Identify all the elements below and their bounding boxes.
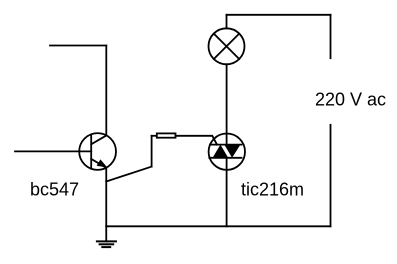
wire: emitter down to ground rail	[105, 168, 107, 227]
transistor Q1 bc547 (NPN)	[79, 133, 116, 170]
wire: resistor left lead	[152, 135, 157, 137]
wire: base lead	[15, 150, 91, 152]
wire: right side upper segment	[330, 15, 332, 58]
wire: lamp top riser	[226, 15, 228, 28]
wire: right side lower segment	[330, 125, 332, 227]
wire: bottom ground rail	[106, 225, 330, 227]
label 220 V ac	[315, 90, 386, 110]
lamp L1	[209, 28, 245, 64]
svg-text:220 V ac: 220 V ac	[315, 90, 386, 110]
wire: collector riser	[105, 46, 107, 136]
wire: resistor right lead to triac gate	[176, 136, 218, 145]
label bc547	[30, 180, 79, 200]
wire: lamp to triac MT2	[226, 64, 228, 144]
wire: vertical up to resistor	[151, 136, 153, 167]
label tic216m	[241, 179, 304, 199]
resistor R1	[157, 133, 176, 137]
wire: top rail	[227, 14, 331, 16]
wire: triac MT1 down to ground rail	[226, 158, 228, 227]
svg-text:tic216m: tic216m	[241, 179, 304, 199]
ground	[97, 226, 116, 247]
wire: diagonal branch from emitter to gate resistor	[106, 167, 151, 182]
triac U1 tic216m	[209, 134, 245, 170]
wire: top-left stub to collector riser	[50, 45, 106, 47]
svg-text:bc547: bc547	[30, 180, 79, 200]
